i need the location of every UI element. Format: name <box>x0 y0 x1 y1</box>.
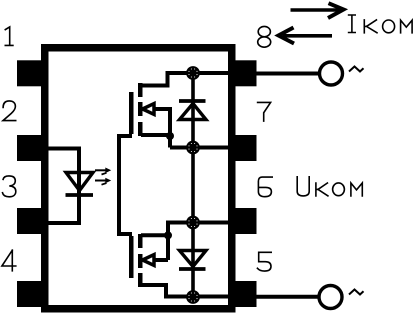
tilde mark bottom <box>349 290 364 295</box>
wire pin 8 to AC terminal <box>256 72 319 76</box>
pin number 2 <box>3 101 16 121</box>
label Ikom <box>349 15 413 33</box>
transistor M1 drain wire to node A <box>141 73 228 86</box>
main vertical bus node A to node D <box>191 73 195 297</box>
transistor M2 channel segment top <box>138 234 143 248</box>
transistor M2 body arrow <box>143 255 155 266</box>
wire LED cathode to pin3 <box>44 195 79 223</box>
node C junction <box>186 216 200 230</box>
wire pin 5 to AC terminal <box>256 295 318 299</box>
IC package body DA1 <box>45 48 232 309</box>
AC terminal circle top <box>320 62 343 85</box>
node B junction <box>186 141 200 155</box>
pin number 8 <box>258 26 271 47</box>
pin number 1 <box>5 27 13 46</box>
pin number 6 <box>258 177 272 197</box>
label Ukom <box>297 177 362 196</box>
transistor M1 channel segment top <box>138 83 143 97</box>
tilde mark top <box>349 67 364 72</box>
diode VD3 cathode bar <box>179 267 206 271</box>
wire node C to pin 6 <box>193 221 228 225</box>
pin 5 <box>235 281 257 307</box>
wire pin2 to LED anode <box>44 149 79 196</box>
transistor M1 body arrow <box>143 104 155 115</box>
wire node B to pin 7 <box>170 146 228 150</box>
node A junction <box>186 66 200 80</box>
diode VD2 cathode bar <box>179 99 206 103</box>
AC terminal circle bottom <box>319 286 342 309</box>
transistor M2 drain wire to node D <box>141 285 228 297</box>
node D junction <box>186 290 200 304</box>
wire node C to M2 source <box>168 223 193 261</box>
pin number 3 <box>3 176 16 197</box>
pin 7 <box>235 135 257 161</box>
LED emission arrow lower <box>95 178 111 185</box>
pin 8 <box>235 60 257 86</box>
transistor M2 body wire <box>153 258 168 262</box>
LED VD1 cathode bar <box>66 193 94 197</box>
current arrow right <box>291 3 344 18</box>
transistor M2 source wire <box>141 233 168 237</box>
transistor M1 body wire <box>153 109 170 148</box>
pin 4 <box>17 281 42 307</box>
LED VD1 triangle <box>66 173 93 191</box>
transistor M1 source wire <box>141 133 170 137</box>
transistor M2 channel segment middle <box>138 254 143 268</box>
transistor M1 channel segment middle <box>138 102 143 116</box>
pin number 7 <box>258 102 271 121</box>
transistor M1 channel segment bottom <box>138 122 143 136</box>
transistor M1 gate electrode <box>129 92 134 134</box>
pin 6 <box>235 208 257 234</box>
diode VD3 triangle <box>180 251 207 267</box>
pin number 4 <box>2 250 16 271</box>
diode VD2 triangle <box>180 104 207 120</box>
transistor M2 channel segment bottom <box>138 273 143 287</box>
pin number 5 <box>257 252 271 271</box>
pin 1 <box>17 60 42 86</box>
LED emission arrow upper <box>95 168 111 175</box>
transistor M2 gate electrode <box>129 236 134 278</box>
junction dot M1 source-body <box>166 132 174 140</box>
gate link wire M1 gate to M2 gate <box>119 136 132 234</box>
pin 2 <box>17 135 42 161</box>
junction dot M2 source-body <box>164 231 172 239</box>
pin 3 <box>17 208 42 234</box>
current arrow left <box>279 28 333 44</box>
